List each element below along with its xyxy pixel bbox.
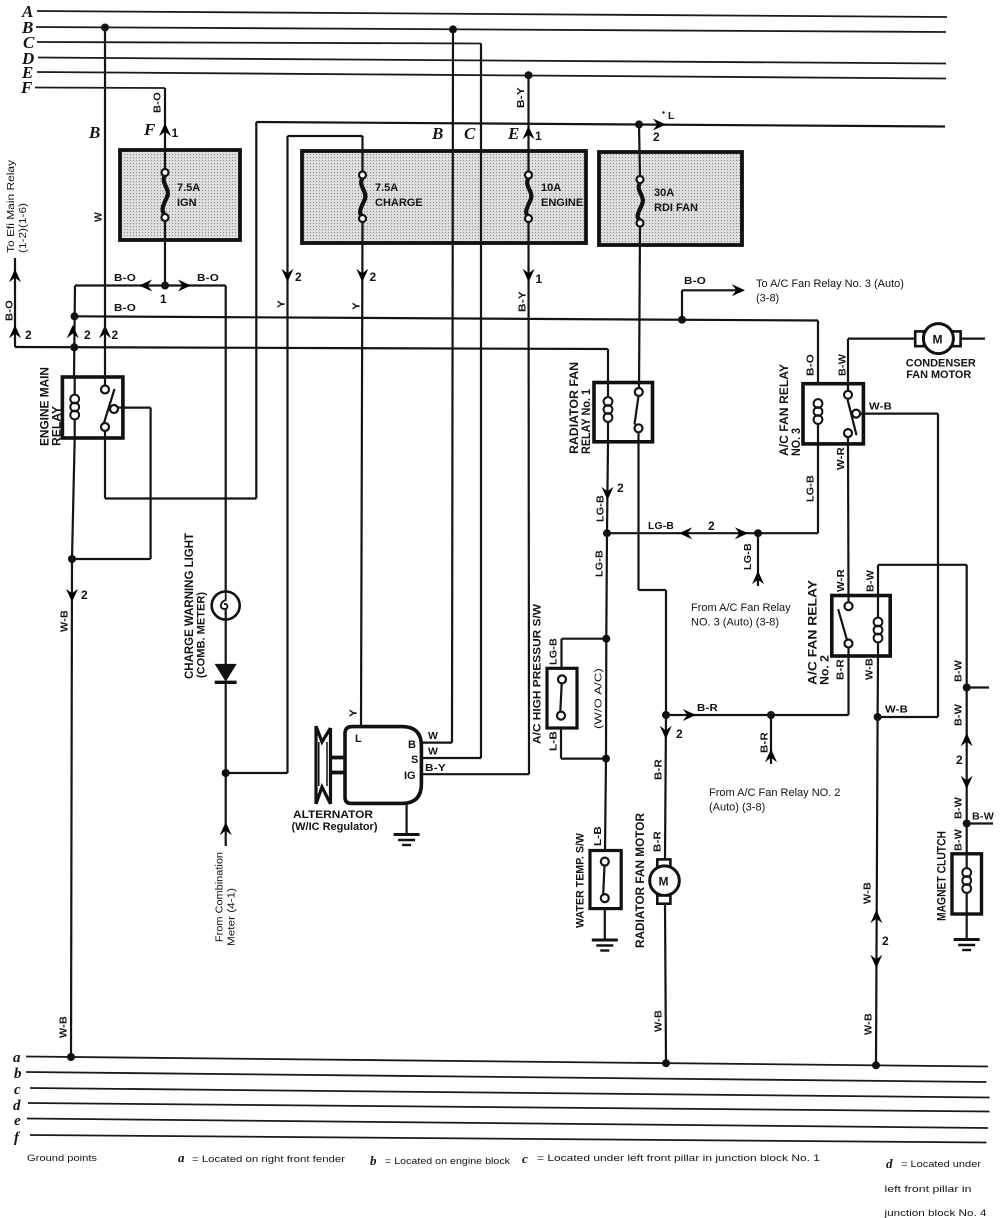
node E-528: [525, 71, 533, 79]
svg-text:2: 2: [84, 328, 91, 342]
wire relay K1 switch bottom to bus riser: [105, 438, 256, 499]
bus D: [21, 49, 946, 68]
svg-text:B-W: B-W: [953, 660, 965, 682]
wire W/O A/C bypass: [593, 639, 607, 759]
svg-text:M: M: [659, 875, 669, 889]
svg-text:LG-B: LG-B: [548, 638, 560, 665]
svg-text:Y: Y: [348, 709, 360, 717]
svg-text:B-R: B-R: [697, 702, 718, 714]
svg-text:From A/C Fan Relay: From A/C Fan Relay: [691, 602, 791, 614]
svg-text:NO. 3 (Auto) (3-8): NO. 3 (Auto) (3-8): [691, 617, 779, 629]
stub To A/C Fan Relay No.3 (B-O): [682, 275, 904, 320]
svg-text:B-O: B-O: [114, 302, 136, 314]
svg-text:left front pillar in: left front pillar in: [885, 1184, 972, 1195]
svg-text:C: C: [464, 124, 476, 143]
relay K2 switch: [635, 383, 643, 442]
svg-text:W-R: W-R: [835, 447, 847, 470]
svg-text:A/C HIGH PRESSUR S/W: A/C HIGH PRESSUR S/W: [532, 603, 544, 744]
stub From A/C Fan Relay NO.2: [709, 715, 840, 814]
svg-text:W-R: W-R: [835, 569, 847, 592]
svg-text:c: c: [522, 1151, 528, 1166]
ground magnet clutch: [954, 914, 980, 950]
wire B-O bus corner into relay K3 coil: [805, 321, 819, 399]
svg-text:To Efi Main Relay: To Efi Main Relay: [5, 159, 17, 253]
svg-text:W-B: W-B: [862, 882, 874, 904]
svg-text:CHARGE WARNING LIGHT: CHARGE WARNING LIGHT: [182, 532, 196, 679]
fuse 10A ENGINE: [525, 172, 583, 223]
node high pressure stub top: [602, 635, 610, 643]
svg-text:(1-2)(1-6): (1-2)(1-6): [17, 203, 29, 253]
wire stub to A/C high pressure switch top: [548, 638, 607, 669]
ground line c: [14, 1082, 990, 1098]
svg-text:B: B: [408, 739, 416, 751]
node B-W stub 2: [963, 811, 994, 828]
svg-text:(3-8): (3-8): [756, 293, 779, 305]
svg-text:CONDENSER: CONDENSER: [906, 358, 976, 370]
wire RDI fuse feed from bus L: [639, 124, 640, 176]
svg-text:Y: Y: [351, 302, 363, 310]
svg-text:B-R: B-R: [835, 659, 847, 680]
svg-text:LG-B: LG-B: [742, 543, 754, 570]
svg-text:Ground points: Ground points: [27, 1153, 98, 1163]
svg-text:d: d: [886, 1156, 893, 1171]
connector arrow 1 on F wire: [159, 123, 179, 140]
bus L (output of engine main relay): [256, 122, 945, 127]
node high pressure stub bottom: [602, 755, 610, 763]
wire x150 bottom to coil ground column: [72, 558, 151, 560]
svg-text:1: 1: [536, 272, 543, 286]
svg-text:L: L: [668, 110, 675, 122]
relay K4 switch: [838, 596, 852, 657]
svg-text:B-W: B-W: [953, 704, 965, 726]
ground line a: [13, 1050, 988, 1067]
wire LG-B horizontal: [607, 519, 818, 539]
svg-text:LG-B: LG-B: [648, 520, 674, 532]
fuse 7.5A IGN: [162, 169, 201, 221]
legend b: [370, 1153, 510, 1168]
wire C bus x481 down to alternator S (W): [420, 44, 481, 759]
fuse block center (CHARGE / ENGINE): [302, 151, 586, 243]
wire relay K3 coil bottom LG-B down: [805, 444, 819, 533]
svg-text:= Located on engine block: = Located on engine block: [385, 1156, 510, 1167]
alternator U1 body: [292, 727, 422, 833]
wire CHARGE fuse top loop: [288, 136, 363, 172]
bus F: [20, 78, 165, 97]
wire radiator fan motor to ground line a: [653, 904, 667, 1064]
svg-text:(Auto) (3-8): (Auto) (3-8): [709, 802, 765, 814]
svg-text:7.5A: 7.5A: [375, 182, 398, 194]
svg-text:2: 2: [708, 519, 715, 533]
svg-text:To A/C Fan Relay No. 3 (Auto): To A/C Fan Relay No. 3 (Auto): [756, 278, 904, 290]
svg-text:10A: 10A: [541, 182, 561, 194]
svg-text:2: 2: [653, 130, 660, 144]
lamp CHARGE WARNING LIGHT wire from B-O: [225, 286, 227, 593]
svg-text:RDI FAN: RDI FAN: [654, 202, 698, 214]
node B-O stub junction: [678, 316, 686, 324]
wire E bus to ENGINE fuse: [515, 75, 529, 171]
wire diode to junction: [225, 683, 227, 846]
node B-R junction: [662, 711, 670, 719]
svg-text:W-B: W-B: [885, 704, 908, 716]
svg-text:= Located on right front fende: = Located on right front fender: [192, 1154, 345, 1165]
relay K1 ENGINE MAIN RELAY box: [38, 367, 123, 446]
wire B-O distribution under IGN fuse: [75, 272, 226, 306]
stub From A/C Fan Relay NO.3: [691, 533, 791, 628]
svg-text:W-B: W-B: [869, 401, 892, 413]
svg-text:a: a: [178, 1150, 185, 1165]
node ground a x71: [67, 1053, 75, 1061]
svg-text:B-Y: B-Y: [425, 762, 446, 774]
wire LG-B down to water temp switch: [592, 759, 606, 851]
wire junction to Y riser: [226, 772, 288, 774]
wire relay K3 mid contact W-B: [860, 401, 938, 718]
node B-R stub junction: [767, 711, 775, 719]
alternator pulley: [316, 726, 345, 804]
svg-text:S: S: [411, 754, 418, 766]
connector arrow 2 on W column: [99, 325, 119, 342]
node B-O corner: [71, 312, 79, 320]
motor M1 RADIATOR FAN MOTOR: [633, 813, 679, 948]
svg-text:W-B: W-B: [864, 658, 876, 680]
svg-text:(W/IC Regulator): (W/IC Regulator): [292, 821, 378, 833]
bus to radiator fan relay coil: [15, 347, 608, 349]
label To Efi Main Relay: [5, 159, 29, 253]
svg-text:WATER TEMP. S/W: WATER TEMP. S/W: [575, 832, 587, 928]
svg-text:B-Y: B-Y: [515, 87, 527, 108]
svg-text:RADIATOR FAN MOTOR: RADIATOR FAN MOTOR: [633, 813, 647, 948]
bus A: [21, 2, 947, 21]
node ground a x666: [662, 1059, 670, 1067]
wire relay K4 switch bottom B-R: [835, 656, 849, 715]
svg-text:2: 2: [295, 270, 302, 284]
svg-text:B-O: B-O: [114, 272, 136, 284]
wire relay K3 switch top to condenser fan motor: [848, 339, 915, 391]
svg-text:= Located under left front pil: = Located under left front pillar in jun…: [537, 1153, 820, 1164]
svg-text:e: e: [14, 1113, 21, 1129]
node L-639: [635, 120, 643, 128]
svg-text:L-B: L-B: [548, 731, 560, 751]
svg-text:FAN MOTOR: FAN MOTOR: [906, 369, 971, 381]
svg-text:junction block No. 4: junction block No. 4: [883, 1208, 986, 1218]
svg-text:No. 2: No. 2: [818, 655, 832, 685]
svg-text:2: 2: [370, 270, 377, 284]
relay K4 A/C FAN RELAY No.2 box: [806, 580, 891, 685]
svg-text:1: 1: [172, 126, 179, 140]
relay K4 coil: [874, 596, 883, 657]
node B-105: [101, 24, 109, 32]
svg-text:B-R: B-R: [653, 759, 665, 780]
ground line e: [14, 1113, 988, 1129]
ground line b: [14, 1066, 987, 1082]
lamp CHARGE WARNING LIGHT: [182, 532, 240, 679]
svg-text:2: 2: [25, 328, 32, 342]
ground alternator: [394, 803, 420, 845]
svg-text:2: 2: [676, 727, 683, 741]
svg-text:B-W: B-W: [865, 570, 877, 592]
svg-text:W: W: [428, 746, 438, 758]
relay K1 coil: [70, 377, 79, 438]
svg-text:2: 2: [81, 588, 88, 602]
node LG-B junction: [603, 529, 611, 537]
ground water temp switch: [592, 909, 618, 951]
wire radiator fan motor feed (B-R): [652, 715, 684, 859]
solenoid MAGNET CLUTCH: [935, 831, 982, 921]
svg-text:B: B: [431, 124, 443, 143]
svg-text:(W/O A/C): (W/O A/C): [593, 668, 605, 729]
wire left branch down to B-O bus: [74, 286, 75, 378]
node B-W stub 1: [963, 684, 989, 692]
svg-text:2: 2: [617, 481, 624, 495]
svg-text:B: B: [88, 123, 100, 142]
svg-text:B-O: B-O: [684, 275, 706, 287]
connector arrow 1 on ENGINE fuse feed: [523, 126, 543, 143]
svg-text:W-B: W-B: [863, 1013, 875, 1035]
wire IGN fuse output down: [164, 220, 166, 286]
svg-text:B-W: B-W: [837, 354, 849, 376]
fuse 7.5A CHARGE: [359, 172, 423, 223]
svg-text:ALTERNATOR: ALTERNATOR: [293, 809, 373, 821]
svg-text:1: 1: [160, 292, 167, 306]
svg-text:CHARGE: CHARGE: [375, 197, 423, 209]
wire relay K4 coil bottom W-B to ground a: [862, 656, 890, 1065]
svg-text:b: b: [14, 1066, 22, 1082]
svg-text:Y: Y: [276, 300, 288, 308]
svg-text:W-B: W-B: [653, 1010, 665, 1032]
svg-text:= Located under: = Located under: [901, 1159, 981, 1170]
motor M2 CONDENSER FAN MOTOR: [906, 324, 985, 381]
bus E: [21, 63, 946, 82]
svg-text:c: c: [14, 1082, 21, 1098]
svg-text:b: b: [370, 1153, 377, 1168]
svg-text:2: 2: [882, 934, 889, 948]
legend d: [883, 1156, 986, 1218]
svg-text:From A/C Fan Relay NO. 2: From A/C Fan Relay NO. 2: [709, 787, 840, 799]
relay K1 switch: [101, 377, 118, 438]
fuse block right (RDI FAN): [599, 152, 742, 245]
wire B bus down (W) to engine main relay: [93, 28, 106, 391]
ground line d: [13, 1098, 990, 1114]
wire relay K1 mid contact to x150: [118, 408, 151, 559]
wire LG-B down from junction: [594, 533, 608, 639]
svg-text:7.5A: 7.5A: [177, 182, 200, 194]
switch S2 WATER TEMP. S/W: [575, 832, 622, 928]
svg-text:F: F: [20, 78, 33, 97]
svg-text:F: F: [143, 120, 156, 139]
relay K3 coil: [814, 399, 823, 444]
node W-B join: [874, 713, 882, 721]
node y347 left: [70, 343, 78, 351]
svg-text:W: W: [93, 212, 105, 222]
svg-text:L-B: L-B: [592, 826, 604, 846]
connector arrow pair 2 left column: [67, 325, 91, 342]
node x72 y559: [68, 555, 76, 563]
wire B bus x453 down to alternator B (W): [420, 29, 453, 742]
relay K2 RADIATOR FAN RELAY No.1 box: [567, 362, 653, 454]
svg-text:RELAY: RELAY: [50, 406, 64, 446]
wire relay K3 switch bottom W-R down: [835, 444, 849, 596]
stub To Efi Main Relay: [4, 258, 33, 347]
diode D1: [215, 664, 237, 682]
relay K3 switch: [837, 354, 861, 444]
wire B-W riser x967: [953, 565, 973, 854]
svg-text:B-R: B-R: [759, 732, 771, 753]
svg-text:LG-B: LG-B: [805, 475, 817, 502]
svg-text:L: L: [355, 733, 362, 745]
svg-text:30A: 30A: [654, 187, 674, 199]
wire F to IGN fuse: [152, 88, 166, 171]
svg-text:E: E: [507, 124, 519, 143]
connector arrow From Combination Meter: [214, 822, 238, 946]
node LG-B stub junction: [754, 529, 762, 537]
wire ENGINE fuse output down (B-Y): [420, 221, 543, 774]
svg-text:From Combination: From Combination: [214, 852, 226, 942]
wire Y riser x287: [276, 136, 303, 773]
svg-text:B-O: B-O: [152, 92, 164, 113]
svg-text:B-O: B-O: [805, 354, 817, 376]
wire y347 corner into relay K2 coil: [607, 349, 609, 397]
ground line f: [14, 1130, 987, 1146]
svg-text:B-W: B-W: [953, 829, 965, 851]
wire relay K2 coil output (LG-B): [595, 442, 625, 533]
svg-text:1: 1: [535, 129, 542, 143]
bus B-O horizontal: [75, 302, 819, 321]
svg-text:B-O: B-O: [197, 272, 219, 284]
connector arrow L right "2": [653, 110, 675, 144]
svg-text:ENGINE: ENGINE: [541, 197, 583, 209]
svg-text:IGN: IGN: [177, 197, 197, 209]
bus C: [23, 33, 481, 52]
svg-text:(COMB. METER): (COMB. METER): [196, 592, 208, 678]
fuse 30A RDI FAN: [637, 176, 699, 227]
legend c: [522, 1151, 820, 1166]
wire A/C high pressure switch bottom stub: [548, 728, 607, 759]
legend a: [178, 1150, 345, 1165]
wire relay K1 coil down W-B ground: [58, 438, 89, 1059]
svg-text:IG: IG: [404, 770, 416, 782]
switch S1 A/C HIGH PRESSUR S/W: [532, 603, 578, 744]
wire lamp to diode: [225, 620, 227, 665]
svg-text:RELAY No. 1: RELAY No. 1: [579, 389, 593, 454]
svg-text:LG-B: LG-B: [595, 495, 607, 522]
svg-text:a: a: [13, 1050, 21, 1066]
relay K3 A/C FAN RELAY NO.3 box: [777, 364, 863, 456]
svg-text:B-W: B-W: [972, 811, 994, 823]
wire bus riser x256: [255, 122, 257, 499]
bus B: [21, 18, 946, 37]
wire relay K2 switch output down-jog: [639, 442, 667, 715]
svg-text:Meter (4-1): Meter (4-1): [226, 888, 238, 946]
svg-text:B-R: B-R: [652, 831, 664, 852]
fuse block left (IGN): [120, 150, 240, 240]
svg-text:LG-B: LG-B: [594, 550, 606, 577]
svg-text:W-B: W-B: [59, 610, 71, 632]
wire B-R horizontal: [666, 702, 849, 721]
node ground a x876: [872, 1061, 880, 1069]
svg-text:d: d: [13, 1098, 21, 1114]
svg-text:MAGNET CLUTCH: MAGNET CLUTCH: [935, 831, 949, 921]
wire relay K4 coil feed B-W: [865, 565, 967, 596]
wire CHARGE fuse output down to alternator L (Y): [351, 221, 377, 727]
svg-text:NO. 3: NO. 3: [789, 428, 803, 456]
svg-text:W-B: W-B: [58, 1016, 70, 1038]
node diode junction: [222, 769, 230, 777]
svg-text:M: M: [933, 333, 943, 347]
svg-text:2: 2: [112, 328, 119, 342]
svg-text:2: 2: [956, 753, 963, 767]
svg-text:B-O: B-O: [4, 300, 16, 321]
svg-text:W: W: [428, 730, 438, 742]
relay K2 coil: [604, 397, 613, 442]
svg-text:B-Y: B-Y: [517, 291, 529, 312]
wire RDI fuse output to radiator fan relay: [639, 227, 640, 393]
node B-453: [449, 25, 457, 33]
svg-text:B-W: B-W: [953, 797, 965, 819]
